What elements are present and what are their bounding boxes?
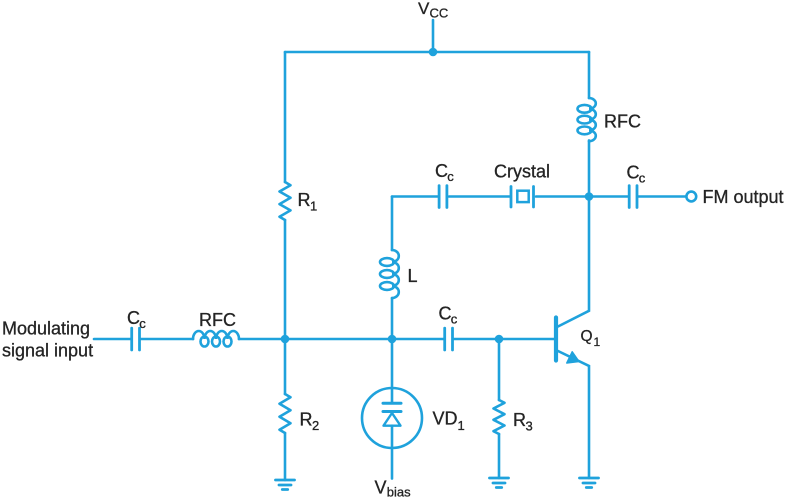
- wire top rail: [285, 51, 589, 54]
- svg-text:V: V: [375, 477, 387, 497]
- crystal Y1: [511, 187, 534, 208]
- varactor VD1: [362, 388, 422, 448]
- wire left vertical middle: [284, 220, 287, 394]
- svg-text:Modulating: Modulating: [2, 319, 90, 339]
- svg-text:c: c: [447, 169, 454, 184]
- svg-text:c: c: [451, 312, 458, 327]
- wire R3 branch upper: [498, 339, 501, 400]
- wire crystal branch left: [392, 195, 438, 198]
- node R3 junction: [495, 335, 504, 344]
- svg-text:R: R: [300, 410, 313, 430]
- wire crystal branch right: [536, 195, 589, 198]
- wire right vertical to output node: [588, 140, 591, 196]
- inductor RFC input choke: [193, 331, 239, 347]
- wire input start: [94, 338, 130, 341]
- wire Vcc stub: [432, 20, 435, 52]
- ground R2: [276, 480, 295, 490]
- capacitor Cc output: [629, 186, 637, 208]
- svg-text:R: R: [298, 190, 311, 210]
- capacitor Cc base line: [445, 328, 453, 350]
- svg-text:1: 1: [594, 335, 601, 349]
- svg-text:2: 2: [312, 418, 319, 433]
- wire VD1 branch lower: [391, 426, 394, 479]
- svg-text:C: C: [627, 162, 640, 182]
- svg-text:C: C: [439, 304, 452, 324]
- svg-text:bias: bias: [387, 485, 411, 500]
- svg-text:C: C: [435, 161, 448, 181]
- capacitor Cc input: [132, 328, 140, 350]
- ground Q1 emitter: [580, 478, 599, 488]
- svg-text:1: 1: [458, 418, 465, 433]
- wire R3 branch lower: [498, 434, 501, 478]
- wire main baseline left: [239, 338, 443, 341]
- resistor R3: [494, 400, 505, 434]
- svg-text:RFC: RFC: [199, 310, 236, 330]
- wire output left segment: [589, 195, 628, 198]
- svg-text:L: L: [408, 266, 418, 286]
- wire output right segment: [638, 195, 686, 198]
- capacitor Cc crystal line: [439, 186, 447, 208]
- wire main baseline right: [454, 338, 554, 341]
- svg-text:RFC: RFC: [604, 112, 641, 132]
- svg-text:Q: Q: [581, 328, 593, 345]
- terminal FM output: [686, 192, 696, 202]
- wire input second segment: [141, 338, 193, 341]
- wire left vertical upper: [284, 52, 287, 182]
- inductor RFC collector choke: [578, 98, 596, 141]
- svg-text:VD: VD: [433, 409, 458, 429]
- ground R3: [490, 478, 509, 488]
- svg-text:c: c: [639, 170, 646, 185]
- svg-text:CC: CC: [430, 6, 449, 21]
- node L junction: [388, 335, 397, 344]
- svg-text:1: 1: [310, 199, 317, 214]
- svg-text:FM output: FM output: [703, 187, 784, 207]
- resistor R2: [280, 394, 291, 433]
- wire L branch upper: [391, 197, 394, 251]
- svg-text:C: C: [127, 308, 140, 328]
- transistor Q1: [556, 197, 589, 479]
- wire L branch lower: [391, 298, 394, 339]
- wire crystal branch middle: [449, 195, 510, 198]
- svg-text:R: R: [513, 410, 526, 430]
- node base divider junction: [281, 335, 290, 344]
- node Vcc junction: [429, 48, 438, 57]
- svg-text:signal input: signal input: [2, 341, 93, 361]
- inductor L: [380, 250, 399, 298]
- node output junction: [585, 192, 594, 201]
- resistor R1: [280, 182, 291, 220]
- svg-text:V: V: [418, 0, 430, 18]
- wire left vertical lower: [284, 433, 287, 480]
- svg-text:3: 3: [526, 419, 533, 434]
- wire VD1 branch upper: [391, 339, 394, 402]
- wire right vertical upper: [588, 52, 591, 98]
- svg-text:Crystal: Crystal: [494, 162, 550, 182]
- svg-text:c: c: [139, 316, 146, 331]
